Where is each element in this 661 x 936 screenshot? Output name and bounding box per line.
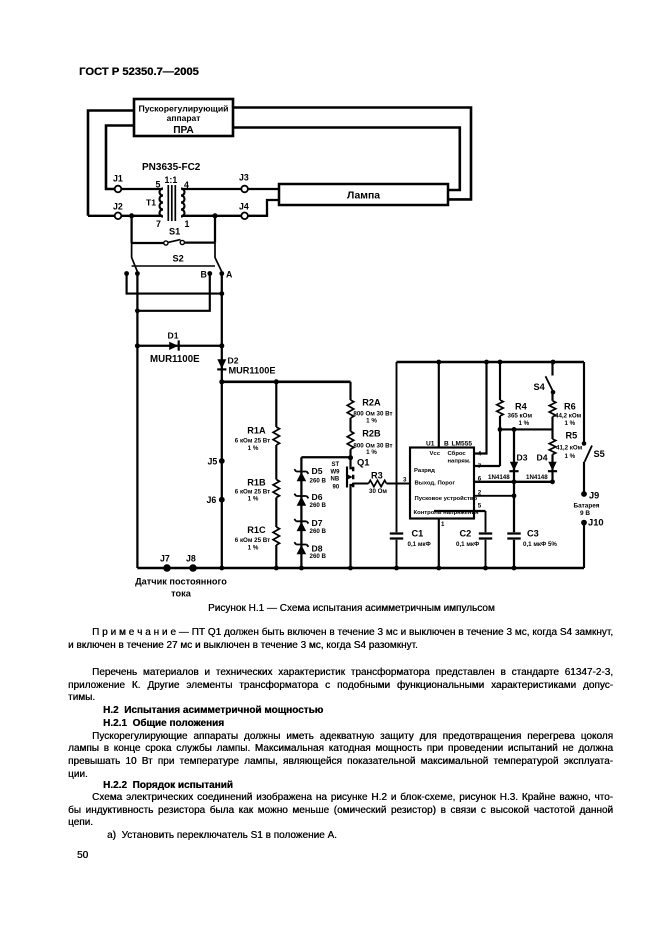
svg-text:S5: S5 [594,449,605,459]
svg-text:D2: D2 [228,356,239,366]
svg-text:260 В: 260 В [310,553,327,560]
svg-text:MUR1100E: MUR1100E [150,354,200,365]
svg-text:J9: J9 [589,491,599,501]
svg-text:6 кОм 25 Вт: 6 кОм 25 Вт [235,537,270,544]
svg-text:Пусковое устройство: Пусковое устройство [415,495,478,502]
svg-text:4: 4 [184,180,189,190]
svg-text:Выход, Порог: Выход, Порог [415,481,456,487]
svg-text:44,2 кОм: 44,2 кОм [555,413,582,420]
svg-text:90: 90 [333,485,340,491]
svg-text:D3: D3 [517,453,528,463]
svg-text:0,1 мкФ: 0,1 мкФ [456,541,480,548]
svg-text:0,1 мкФ: 0,1 мкФ [408,541,432,548]
svg-text:Датчик постоянного: Датчик постоянного [135,577,227,587]
svg-text:R5: R5 [566,431,578,441]
svg-text:1:1: 1:1 [165,175,178,185]
svg-text:1N4148: 1N4148 [526,474,548,481]
svg-text:J8: J8 [186,554,196,564]
svg-text:4: 4 [478,451,482,458]
svg-text:260 В: 260 В [310,478,327,485]
svg-text:1: 1 [441,521,445,528]
svg-text:7: 7 [156,219,161,229]
svg-text:T1: T1 [146,198,156,208]
svg-text:Q1: Q1 [357,457,370,468]
svg-text:1: 1 [185,219,190,229]
svg-text:тока: тока [171,589,192,599]
svg-text:6 кОм 25 Вт: 6 кОм 25 Вт [235,489,270,496]
svg-text:6 кОм 25 Вт: 6 кОм 25 Вт [235,438,270,445]
svg-text:LM555: LM555 [452,441,473,448]
svg-text:1 %: 1 % [248,545,259,552]
svg-text:J1: J1 [113,174,123,184]
svg-text:C1: C1 [412,529,424,539]
svg-text:D7: D7 [312,518,323,528]
svg-text:ST: ST [332,462,340,468]
svg-text:U1: U1 [426,441,435,448]
svg-text:30 Ом: 30 Ом [369,488,387,495]
svg-text:260 В: 260 В [310,528,327,535]
svg-text:напряж.: напряж. [448,459,472,465]
svg-text:5: 5 [478,503,482,510]
svg-text:1 %: 1 % [565,453,576,460]
svg-text:J2: J2 [113,202,123,212]
svg-text:S2: S2 [173,254,184,264]
svg-text:3: 3 [403,477,407,484]
svg-text:A: A [226,270,233,280]
svg-text:R2B: R2B [362,429,381,439]
svg-text:NB: NB [331,477,340,483]
svg-text:R3: R3 [371,471,383,481]
svg-text:C2: C2 [460,529,472,539]
svg-text:R6: R6 [564,402,576,412]
svg-text:R1A: R1A [247,426,266,436]
svg-text:D1: D1 [168,331,179,341]
svg-text:R1B: R1B [247,478,266,488]
svg-text:1 %: 1 % [519,420,530,427]
svg-text:PN3635-FC2: PN3635-FC2 [142,162,201,173]
svg-text:1 %: 1 % [366,449,377,456]
svg-text:C3: C3 [527,529,539,539]
svg-text:S4: S4 [534,382,546,392]
svg-text:B: B [201,270,207,280]
svg-text:1 %: 1 % [248,445,259,452]
svg-text:5: 5 [156,180,161,190]
svg-text:2: 2 [478,490,482,497]
svg-text:R1C: R1C [247,525,266,535]
svg-text:ПРА: ПРА [173,125,194,136]
svg-text:D4: D4 [537,453,548,463]
svg-text:Vcc: Vcc [430,451,441,457]
svg-text:J4: J4 [239,202,249,212]
svg-text:Разряд: Разряд [414,468,435,474]
svg-text:S1: S1 [169,227,180,237]
svg-text:Батарея: Батарея [574,503,600,510]
svg-text:260 В: 260 В [310,502,327,509]
svg-text:Сброс: Сброс [448,450,467,457]
svg-text:J6: J6 [207,495,217,505]
svg-text:Лампа: Лампа [347,191,380,202]
svg-text:R2A: R2A [362,398,381,408]
svg-text:J10: J10 [588,517,604,528]
svg-text:J7: J7 [160,554,170,564]
svg-text:0,1 мкФ 5%: 0,1 мкФ 5% [523,541,557,548]
svg-text:MUR1100E: MUR1100E [229,366,276,376]
svg-text:D6: D6 [312,492,323,502]
svg-text:D5: D5 [312,466,323,476]
svg-text:41,2 кОм: 41,2 кОм [556,445,583,452]
svg-text:365 кОм: 365 кОм [508,413,533,420]
svg-text:J5: J5 [208,457,218,467]
svg-text:B: B [444,441,449,448]
svg-text:1 %: 1 % [248,496,259,503]
svg-text:аппарат: аппарат [167,113,201,123]
svg-text:D8: D8 [312,544,323,554]
svg-text:800 Ом 30 Вт: 800 Ом 30 Вт [353,411,392,418]
svg-text:R4: R4 [515,402,528,412]
svg-text:6: 6 [478,476,482,483]
svg-text:W9: W9 [331,470,341,476]
svg-text:1 %: 1 % [366,418,377,425]
svg-text:Пускорегулирующий: Пускорегулирующий [138,104,228,114]
svg-text:7: 7 [478,463,482,470]
svg-text:J3: J3 [239,173,249,183]
svg-text:1 %: 1 % [565,420,576,427]
svg-text:1N4148: 1N4148 [488,474,510,481]
